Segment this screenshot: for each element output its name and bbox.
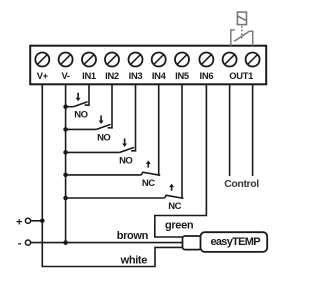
svg-text:NO: NO [74, 110, 87, 121]
svg-text:IN4: IN4 [152, 70, 167, 81]
svg-text:NC: NC [168, 201, 181, 212]
svg-text:V+: V+ [37, 70, 49, 81]
svg-text:white: white [120, 255, 148, 267]
svg-text:Control: Control [224, 178, 259, 190]
svg-text:NO: NO [119, 155, 132, 166]
svg-text:IN1: IN1 [82, 70, 96, 81]
svg-text:IN2: IN2 [105, 70, 119, 81]
svg-text:NC: NC [142, 178, 155, 189]
svg-text:V-: V- [61, 70, 69, 81]
svg-text:OUT1: OUT1 [229, 70, 253, 81]
svg-text:brown: brown [117, 230, 149, 242]
svg-text:IN6: IN6 [200, 70, 214, 81]
svg-text:NO: NO [97, 132, 110, 143]
svg-text:IN3: IN3 [129, 70, 143, 81]
svg-text:-: - [18, 238, 22, 250]
svg-text:+: + [16, 217, 22, 229]
svg-text:easyTEMP: easyTEMP [210, 236, 260, 248]
svg-text:IN5: IN5 [175, 70, 189, 81]
svg-text:green: green [165, 220, 194, 232]
